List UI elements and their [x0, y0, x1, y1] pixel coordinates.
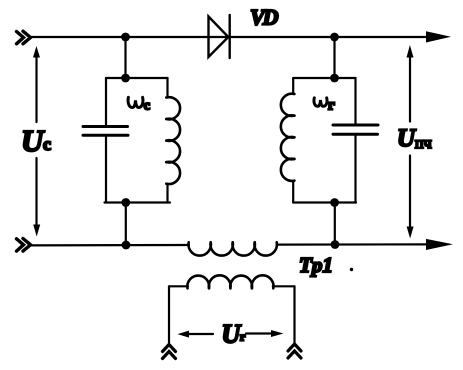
wire node to left tank top [124, 37, 126, 78]
diode VD [209, 15, 230, 58]
transformer Tp1 primary coil [188, 242, 276, 255]
transformer Tp1 secondary left lead [169, 285, 188, 287]
node left tank bottom [121, 198, 130, 207]
label omega-g [314, 98, 327, 106]
svg-text:VD: VD [250, 4, 279, 29]
arrow Ug left [186, 333, 213, 335]
left tank bottom wire [105, 201, 171, 203]
capacitor C1 bottom lead [105, 137, 107, 203]
node right tank bottom [330, 198, 339, 207]
stray period after Tp1 [350, 268, 353, 271]
arrowhead bottom output [426, 239, 453, 250]
right tank top wire [293, 77, 355, 79]
arrowhead top output [426, 31, 451, 42]
svg-text:г: г [328, 98, 335, 114]
arrow Uc (left measurement arrow) [35, 55, 37, 122]
connector X2 bottom-left input [17, 239, 31, 252]
wire bottom bus right [277, 243, 428, 245]
svg-text:пч: пч [415, 135, 432, 152]
connector X3 bottom terminal left [163, 345, 176, 359]
wire bottom bus left [29, 244, 189, 247]
svg-text:с: с [144, 98, 150, 113]
capacitor C2 top lead [354, 78, 356, 124]
wire secondary right down [293, 286, 295, 344]
node bottom-right junction [331, 240, 340, 249]
capacitor C1 top lead [105, 78, 107, 125]
transformer Tp1 secondary right lead [273, 285, 295, 287]
wire node to right tank top [333, 37, 335, 78]
label omega-c [128, 97, 143, 107]
capacitor C2 bottom lead [354, 136, 356, 203]
node top-right junction [330, 33, 339, 42]
node right tank top [330, 74, 339, 83]
svg-text:U: U [222, 320, 242, 349]
right tank bottom wire [293, 201, 356, 203]
wire secondary left down [168, 286, 170, 344]
svg-text:U: U [21, 123, 45, 158]
wire right tank bottom to bus [334, 203, 336, 245]
capacitor C2 plates [333, 125, 378, 134]
connector X4 bottom terminal right [288, 344, 301, 358]
arrow Upch (right measurement arrow) [409, 55, 411, 122]
svg-text:с: с [43, 134, 51, 154]
coil L1 arcs [166, 97, 180, 184]
coil L2 arcs [281, 94, 295, 181]
coil L2 bottom lead [292, 181, 294, 203]
node bottom-left junction [122, 241, 131, 250]
capacitor C1 plates [83, 127, 128, 136]
coil L2 top lead [292, 78, 294, 94]
svg-text:Tp1: Tp1 [299, 253, 333, 277]
connector X1 top-left input [17, 31, 31, 44]
coil L1 top lead [166, 78, 168, 98]
node top-left junction [121, 33, 130, 42]
arrow Ug right [246, 332, 272, 334]
node left tank top [121, 74, 130, 83]
svg-text:U: U [397, 125, 417, 152]
coil L1 bottom lead [166, 184, 168, 203]
wire left tank bottom to bus [125, 203, 127, 246]
transformer Tp1 secondary coil [187, 275, 273, 288]
wire top bus [29, 36, 428, 38]
svg-text:г: г [240, 330, 246, 344]
left tank top wire [106, 77, 168, 79]
